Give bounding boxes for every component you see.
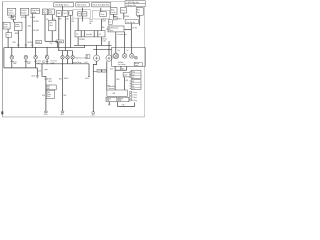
lamp E4 <box>45 55 49 59</box>
switch SW4 box <box>136 8 143 16</box>
wire ground drop to splice pack <box>42 64 46 112</box>
svg-text:C410: C410 <box>97 71 101 73</box>
wire flasher drop <box>44 15 46 42</box>
svg-text:Front: Front <box>27 60 31 63</box>
connector tick SW2 drop <box>25 44 28 46</box>
svg-text:BRN/D: BRN/D <box>119 98 123 100</box>
svg-text:DRL: DRL <box>57 13 60 15</box>
wire R drop <box>116 102 118 107</box>
svg-text:C410: C410 <box>84 62 88 64</box>
svg-text:S316: S316 <box>36 42 40 44</box>
connector tick lamp2 ground <box>25 60 28 62</box>
svg-text:G101: G101 <box>31 76 35 78</box>
wire stub label to F1 <box>62 6 64 11</box>
svg-text:C100: C100 <box>89 21 93 23</box>
connector tick lamp3 ground <box>34 60 37 62</box>
legend row 1 <box>130 91 137 94</box>
connector tick lamp4 ground <box>46 60 49 62</box>
rear lamp L3 <box>129 54 134 59</box>
wire horizontal run <box>45 40 58 42</box>
note box S1 <box>46 85 56 90</box>
wire F2b drop <box>70 15 72 47</box>
switch SW1 box <box>7 8 15 15</box>
label box inside rear box <box>134 63 142 67</box>
rear lamp assembly box <box>112 48 146 67</box>
svg-text:Switch: Switch <box>21 11 26 14</box>
wire cluster stem3 <box>72 51 74 56</box>
label lamp E2 <box>27 60 31 65</box>
splice label box S1 <box>56 40 64 43</box>
left rail <box>3 48 5 68</box>
wire down to bus <box>57 41 59 47</box>
wire stub label to F5 <box>100 8 102 12</box>
svg-text:Lp: Lp <box>86 57 88 59</box>
svg-text:Fuse: Fuse <box>101 14 105 16</box>
svg-text:Turn Sig Sw: Turn Sig Sw <box>126 22 135 24</box>
switch bar box T3 <box>125 20 138 24</box>
wire strip drop B <box>100 37 102 45</box>
connector label box A <box>97 70 101 73</box>
fuse F2b box <box>69 11 73 16</box>
tick at ground bus drop end <box>88 75 90 77</box>
svg-text:Mod: Mod <box>49 25 52 27</box>
svg-text:Splice: Splice <box>47 94 51 96</box>
junction box W <box>107 90 128 96</box>
wire F6 stub <box>123 13 125 20</box>
junction dot lamp2 <box>25 47 26 48</box>
lamp E5 <box>61 56 65 60</box>
svg-text:Haz: Haz <box>49 10 52 12</box>
svg-text:Turn: Turn <box>43 10 46 12</box>
svg-text:18 BLK: 18 BLK <box>47 79 52 81</box>
wire inside stem L3 <box>131 48 133 54</box>
svg-text:Flshr: Flshr <box>43 12 47 14</box>
relay K1 box <box>31 9 40 14</box>
note box S2 <box>46 90 54 98</box>
connector label column C100 <box>89 19 93 25</box>
splice symbol A <box>44 111 47 113</box>
svg-text:18 ORN: 18 ORN <box>33 30 40 32</box>
junction dot headlamp2 <box>108 49 109 50</box>
svg-text:20: 20 <box>72 19 74 21</box>
border frame left <box>1 2 3 117</box>
splice symbol B <box>61 111 64 113</box>
svg-text:S410: S410 <box>85 78 89 80</box>
svg-text:Trn: Trn <box>126 50 128 52</box>
svg-text:4 Chrg: 4 Chrg <box>132 99 137 102</box>
svg-text:LBL: LBL <box>66 18 69 20</box>
svg-text:Lamp: Lamp <box>135 65 139 67</box>
rear cluster sub-bus <box>58 50 72 52</box>
svg-text:18 BLK: 18 BLK <box>64 78 69 80</box>
connector box T2 <box>113 17 117 21</box>
svg-text:3 Gnd: 3 Gnd <box>132 97 136 99</box>
svg-text:Stop: Stop <box>132 71 135 74</box>
svg-text:Hot At All Times: Hot At All Times <box>55 4 68 7</box>
right feed bus <box>74 44 112 46</box>
svg-text:BRN/D: BRN/D <box>107 98 111 100</box>
svg-text:BLK: BLK <box>126 80 129 82</box>
svg-text:Blk: Blk <box>102 27 104 29</box>
svg-text:Turn: Turn <box>132 74 135 76</box>
connector tick O drop <box>17 44 20 46</box>
wire F2 drop <box>64 16 66 50</box>
stub below R1 <box>108 102 110 104</box>
bottom connector box R2 <box>118 97 129 102</box>
svg-text:BLK: BLK <box>42 95 45 97</box>
svg-text:C210: C210 <box>114 18 118 20</box>
svg-text:Stp: Stp <box>118 49 120 52</box>
svg-text:Park: Park <box>38 60 41 63</box>
wire K1 drop <box>31 14 33 48</box>
wire S1 to lamp bus <box>58 43 60 51</box>
connector label box B <box>102 70 106 73</box>
wire F1 drop <box>58 16 60 40</box>
fuse F4 box <box>83 12 87 16</box>
svg-text:DRL: DRL <box>47 88 50 90</box>
svg-text:Ground Strap: Ground Strap <box>72 61 81 64</box>
wire N drop to bus <box>7 37 9 47</box>
wire cluster stem2 <box>67 51 69 56</box>
wire bottom right rise <box>134 103 136 107</box>
wire stub fuse block down <box>82 16 84 22</box>
svg-text:BRN: BRN <box>15 33 18 35</box>
horizontal tie below rear box <box>115 69 127 71</box>
rear ground bus <box>36 63 89 65</box>
wire rear stem1 <box>115 32 117 48</box>
wire lamp3 ground stem <box>35 59 37 68</box>
svg-text:Front: Front <box>13 60 17 63</box>
flasher U1 box <box>43 9 48 15</box>
fuse F1 box <box>56 11 61 17</box>
wire horizontal bottom right <box>117 105 134 107</box>
connector tick 2 on splice wire <box>44 78 47 80</box>
svg-text:With: With <box>47 91 50 94</box>
label inside rear box <box>118 61 126 66</box>
wire headlamp2 stem <box>108 41 110 55</box>
wire headlamp1 ground elbow <box>93 61 96 112</box>
svg-text:Pack: Pack <box>47 96 51 98</box>
svg-text:Mkr: Mkr <box>132 86 135 88</box>
junction dot ground bus A <box>41 62 44 65</box>
wire inside stem L1 <box>115 48 117 54</box>
junction dot headlamp1 <box>96 49 97 50</box>
label lamp E1 <box>13 60 17 65</box>
feed label box "Hot In Run And Start" <box>92 3 111 7</box>
ground bus left <box>4 67 37 69</box>
label lamp E4 left <box>42 59 45 64</box>
park lamp bus <box>4 47 85 49</box>
wire O drop to bus <box>17 31 19 48</box>
switch M box <box>3 22 10 29</box>
label box T1 <box>11 17 16 20</box>
wire Q drop <box>124 32 126 48</box>
svg-text:Frnt Turn: Frnt Turn <box>51 60 57 63</box>
svg-text:1 W/S Wip Sys: 1 W/S Wip Sys <box>126 2 139 4</box>
lamp E1 <box>10 55 14 59</box>
fuse F3 box <box>78 12 83 16</box>
terminal B row stubs <box>130 81 132 89</box>
junction strip X1 <box>75 31 105 37</box>
headlamp E8 <box>94 55 100 61</box>
connector tick on ground wire <box>93 71 97 73</box>
svg-text:Fuse: Fuse <box>121 10 125 12</box>
junction block dashed enclosure <box>92 11 110 20</box>
svg-text:WHT: WHT <box>118 18 121 20</box>
svg-text:Lic: Lic <box>132 83 134 85</box>
wire lamp3 stem <box>35 48 37 56</box>
svg-text:BLK: BLK <box>38 70 41 72</box>
flasher U2 box <box>49 9 55 15</box>
label lamp E4 <box>51 60 57 65</box>
svg-text:Gnd: Gnd <box>132 88 135 90</box>
svg-text:Hot In Run: Hot In Run <box>77 4 86 7</box>
svg-text:Blk: Blk <box>89 23 91 25</box>
rear lamp L2 <box>122 54 127 59</box>
feed label box "Hot At All Times" <box>54 3 74 7</box>
wire stub label to fuse block <box>82 8 84 12</box>
wire rear box drop1 <box>114 66 116 70</box>
wire lamp4 ground stem <box>46 59 48 64</box>
svg-text:Y18: Y18 <box>46 19 49 21</box>
svg-text:1 Fuse: 1 Fuse <box>132 92 137 94</box>
module O box <box>14 22 22 30</box>
junction dot lamp1 <box>11 47 12 48</box>
svg-text:B/U: B/U <box>64 13 68 15</box>
svg-text:Switch: Switch <box>8 11 13 14</box>
svg-text:G110: G110 <box>44 114 48 116</box>
svg-text:2 Acsry Dlv: 2 Acsry Dlv <box>126 4 136 7</box>
svg-text:BLK: BLK <box>59 79 62 81</box>
fuse F6 box <box>120 8 126 13</box>
bottom connector box R1 <box>106 97 117 102</box>
wire ground bus drop <box>88 64 90 77</box>
module P box <box>49 20 56 31</box>
wire F3 drop <box>77 18 79 31</box>
connector tick K1 drop <box>31 44 34 46</box>
svg-text:Cnstr: Cnstr <box>4 23 8 26</box>
svg-text:G112: G112 <box>60 114 64 116</box>
svg-text:18 P: 18 P <box>50 43 53 45</box>
wire SW3 stub <box>113 14 115 16</box>
svg-text:18 LG: 18 LG <box>102 18 107 20</box>
wire F5 drop <box>100 19 102 31</box>
rear lamp L1 <box>113 53 119 59</box>
svg-text:18 YEL: 18 YEL <box>132 27 137 29</box>
legend row 2 <box>130 94 138 97</box>
svg-text:Switch: Switch <box>15 25 20 28</box>
headlamp E9 <box>106 55 112 61</box>
fuse F5 box <box>100 12 107 17</box>
svg-text:18 PNK: 18 PNK <box>33 21 39 23</box>
wire strip drop A <box>77 37 79 45</box>
junction dot cluster1 <box>62 50 63 51</box>
svg-text:PNK: PNK <box>13 42 17 44</box>
wire headlamp2 ground <box>106 61 108 90</box>
connector box below rear <box>123 72 130 77</box>
wire T1 to module O <box>12 19 14 22</box>
wire C420 to junction box W <box>124 77 126 90</box>
wire T3 to rear box <box>130 24 132 48</box>
svg-text:STP: STP <box>83 14 86 16</box>
border frame right <box>144 2 146 117</box>
switch SW2 box <box>20 8 28 15</box>
wire down to junction box W <box>114 70 116 90</box>
svg-text:LBL: LBL <box>72 21 75 23</box>
svg-text:16 LBL: 16 LBL <box>102 39 107 41</box>
svg-text:2 Conn: 2 Conn <box>132 95 137 97</box>
fuse block dashed enclosure <box>73 10 90 18</box>
module Q box <box>108 26 124 32</box>
svg-text:BLK: BLK <box>102 71 105 73</box>
svg-text:C2: C2 <box>109 22 111 24</box>
terminal A row stubs <box>130 72 132 78</box>
headlamp bus <box>93 48 111 50</box>
wire M to N <box>7 29 9 33</box>
wire lamp2 ground stem <box>25 59 27 68</box>
svg-text:18 BRN: 18 BRN <box>57 41 63 43</box>
svg-text:P/L: P/L <box>76 34 79 36</box>
connector tick on splice wire <box>44 69 47 71</box>
label strip drop B <box>102 39 107 43</box>
svg-text:Tail/Stop: Tail/Stop <box>118 61 124 64</box>
junction dot ground bus C <box>61 62 64 65</box>
svg-text:G401: G401 <box>91 115 95 117</box>
svg-text:18 TAN: 18 TAN <box>79 38 85 41</box>
border frame bottom <box>2 116 144 118</box>
wire cluster stem1 <box>62 51 64 56</box>
svg-text:C100: C100 <box>102 20 106 22</box>
junction dot lamp4 <box>47 47 48 48</box>
svg-text:B LGN: B LGN <box>30 17 36 19</box>
margin tick mark <box>1 111 3 114</box>
bus tie vertical <box>84 45 86 47</box>
wire ground drop <box>36 68 38 76</box>
svg-text:BLK: BLK <box>110 68 113 70</box>
lamp E3 <box>34 55 38 59</box>
connector N box <box>6 33 12 38</box>
svg-text:S214: S214 <box>28 26 32 28</box>
wire rear box drop3 <box>126 66 128 70</box>
connector box T2b <box>108 20 112 24</box>
svg-text:C410: C410 <box>102 41 106 43</box>
svg-text:18 DBL: 18 DBL <box>124 16 129 18</box>
svg-text:Tan: Tan <box>89 19 92 21</box>
wire rear box drop2 <box>120 66 122 70</box>
switch SW3 box <box>110 8 117 15</box>
wire flasher2 drop <box>51 15 53 21</box>
wire SW2 drop <box>25 15 27 48</box>
wire SW1 stub <box>11 15 13 16</box>
svg-text:ORN: ORN <box>116 79 119 81</box>
label lamp E3 <box>38 60 41 65</box>
legend row 3 <box>130 97 137 100</box>
svg-text:BLK: BLK <box>64 95 67 97</box>
svg-text:P18: P18 <box>53 19 56 21</box>
label lower left of terminal <box>109 85 116 90</box>
wire inside stem L2 <box>124 48 126 54</box>
svg-text:W/O: W/O <box>47 86 51 88</box>
legend box top right <box>125 1 145 7</box>
headlamp label box <box>86 55 90 59</box>
wire cluster ground stem1 long <box>62 59 64 111</box>
svg-text:18 BRN: 18 BRN <box>27 42 33 44</box>
wire lamp4 stem <box>46 48 48 56</box>
svg-text:B/U: B/U <box>132 81 134 83</box>
border frame top <box>2 1 144 3</box>
ground mini symbol <box>108 103 111 106</box>
junction dot lamp3 <box>35 47 36 48</box>
wire SW4 stub <box>139 15 141 25</box>
svg-text:Lp Sw: Lp Sw <box>111 12 116 14</box>
connector tick lamp1 ground <box>10 60 13 62</box>
terminal box right B <box>131 80 141 91</box>
junction dot ground bus B <box>46 62 49 65</box>
svg-text:Drvr: Drvr <box>42 59 45 62</box>
svg-text:Junc Blk: Junc Blk <box>86 34 93 36</box>
wire headlamp1 stem <box>96 45 98 55</box>
ground G101 symbol <box>36 76 39 78</box>
junction dot cluster2 <box>67 50 68 51</box>
svg-text:2.7A: 2.7A <box>122 104 125 107</box>
wire cluster ground stem2 <box>67 59 69 64</box>
svg-text:C2: C2 <box>99 34 101 36</box>
lamp E6 <box>66 56 70 60</box>
wire lamp1 ground stem <box>11 59 13 68</box>
lamp E2 <box>24 55 28 59</box>
legend row 4 <box>130 99 137 102</box>
wire lamp1 stem <box>11 48 13 56</box>
svg-text:Flshr: Flshr <box>49 12 53 14</box>
feed label box "Hot In Run" <box>76 3 89 7</box>
svg-text:C1: C1 <box>7 35 9 37</box>
terminal box right A <box>131 70 141 79</box>
svg-text:Hot In Run And Start: Hot In Run And Start <box>93 4 110 7</box>
svg-text:Sw: Sw <box>137 12 140 14</box>
rear lamp L4 small <box>135 56 138 59</box>
wire cluster ground stem3 <box>72 59 74 64</box>
wire module P drop <box>51 31 53 42</box>
svg-text:S410: S410 <box>48 81 52 83</box>
svg-text:C420: C420 <box>124 75 128 77</box>
label box above park bus C <box>36 40 42 44</box>
wire Q elbow <box>124 29 131 31</box>
splice symbol C <box>92 112 95 114</box>
svg-text:on serial data: on serial data <box>117 33 127 36</box>
svg-text:1.5A: 1.5A <box>112 92 115 95</box>
lamp E7 <box>71 56 75 60</box>
fuse F2 box <box>63 11 68 17</box>
